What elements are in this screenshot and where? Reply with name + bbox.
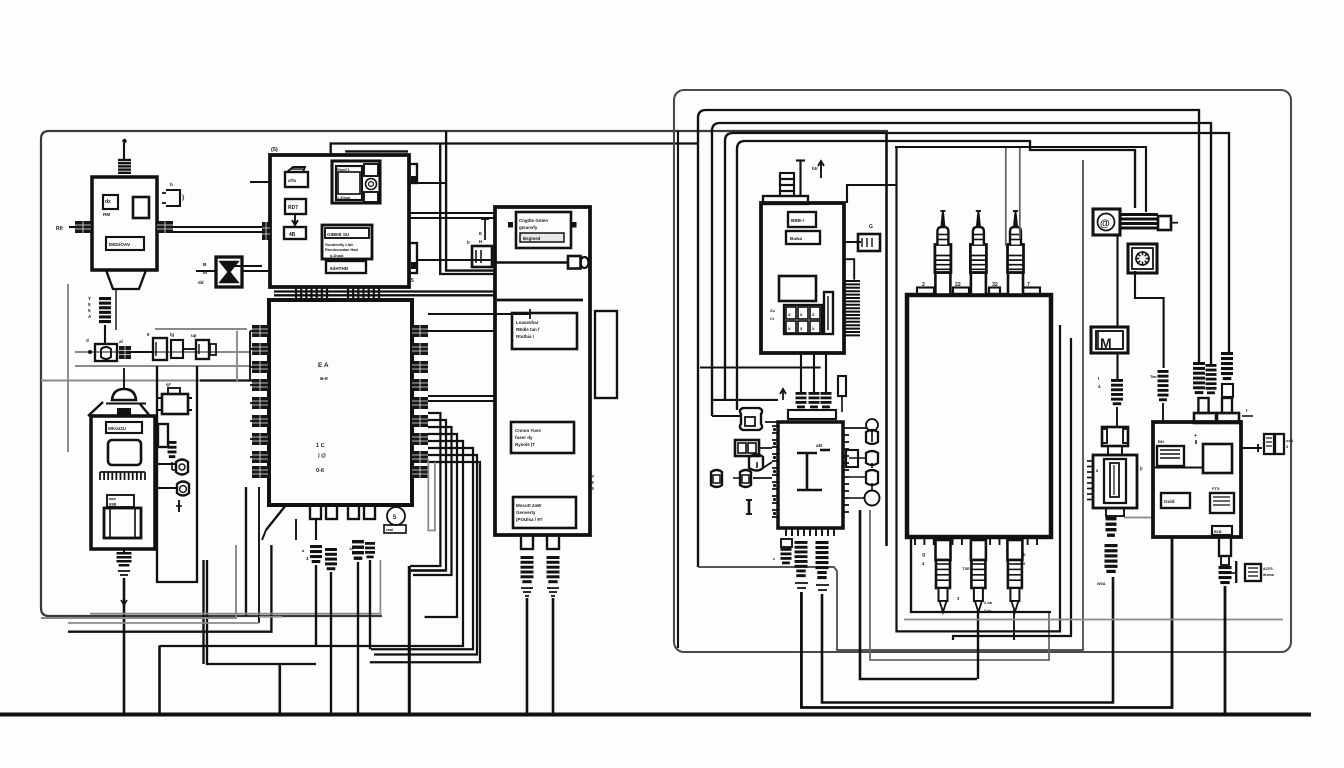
- svg-text:4B: 4B: [289, 232, 296, 238]
- G1 separator: [1153, 466, 1204, 468]
- wire: [242, 270, 269, 272]
- small box K1: [153, 338, 167, 360]
- svg-text:Cr: Cr: [770, 316, 775, 321]
- svg-text:3: 3: [1286, 445, 1288, 449]
- wire gray: [236, 331, 238, 381]
- wire gray loop: [67, 284, 69, 452]
- engine bottom rail: [915, 536, 1037, 538]
- svg-text:2: 2: [922, 282, 925, 288]
- D1 label 3: [511, 422, 574, 453]
- B2 screen: [108, 440, 141, 465]
- F1 bottom comb: [786, 527, 834, 529]
- svg-text:q#: q#: [166, 382, 172, 387]
- svg-text:22: 22: [955, 282, 961, 288]
- svg-text:odd: odd: [1286, 439, 1294, 443]
- small box: [158, 424, 168, 447]
- svg-text:WKcUZU: WKcUZU: [108, 426, 126, 431]
- loop wire 4: [737, 141, 1135, 410]
- IC bottom pin a: [310, 505, 321, 519]
- wire: [870, 510, 1049, 660]
- svg-text:Nysole |T: Nysole |T: [515, 442, 535, 447]
- svg-text:Bawa: Bawa: [790, 236, 802, 241]
- gray U right of IC: [428, 459, 435, 531]
- svg-text:drama: drama: [1263, 573, 1275, 577]
- svg-text:ggg: ggg: [109, 501, 117, 506]
- plug: [1106, 517, 1117, 520]
- display module M2: [332, 161, 380, 203]
- G1 label 1: [1157, 446, 1184, 466]
- wire: [700, 366, 821, 368]
- label box 6dutRM: [326, 261, 366, 273]
- E1 top connector stack: [780, 173, 794, 179]
- plug: [1193, 362, 1205, 365]
- wire: [843, 259, 855, 279]
- wire: [68, 545, 271, 632]
- wire: [698, 160, 1083, 650]
- wire: [196, 270, 216, 272]
- wire: [428, 313, 530, 315]
- IC bottom pin b: [348, 505, 359, 519]
- small box K2: [171, 340, 183, 358]
- wire: [417, 259, 495, 261]
- injector IJ2: [971, 273, 986, 295]
- B2 bottom plug: [117, 552, 132, 555]
- D1 label ears: [508, 222, 513, 228]
- box RD7: [285, 199, 306, 214]
- svg-text:al: al: [119, 339, 123, 344]
- wire: [104, 325, 106, 344]
- wire: [1116, 235, 1118, 327]
- M1 right tab 1: [409, 164, 417, 183]
- E1 label: [788, 212, 816, 227]
- wire: [526, 598, 529, 714]
- gray wires at IJ3: [1005, 148, 1007, 246]
- bus gray: [904, 619, 1283, 621]
- left panel border: [41, 131, 888, 616]
- wire: [173, 231, 262, 233]
- svg-text:|r: |r: [1140, 466, 1143, 471]
- wire: [204, 560, 317, 664]
- TX1 right pin comb: [157, 221, 173, 233]
- wire: [130, 351, 153, 353]
- motor icon box A3: [1091, 327, 1128, 353]
- svg-text:gtsunvfy: gtsunvfy: [519, 225, 538, 230]
- label block inside M1: [322, 225, 372, 259]
- IC left pin blocks: [252, 325, 268, 337]
- svg-text:Gold: Gold: [1164, 499, 1175, 504]
- M1 bottom compin 1: [296, 286, 327, 288]
- svg-text:E: E: [479, 231, 482, 236]
- G1 bottom box: [1212, 526, 1232, 535]
- bracket component right of TX1: [166, 190, 180, 206]
- wire: [953, 338, 1071, 640]
- wire: [173, 226, 262, 228]
- wire: [115, 289, 117, 330]
- hourglass sensor X1: [216, 257, 242, 287]
- box 4B: [284, 227, 306, 239]
- coolant sensor: [1245, 564, 1261, 581]
- engine top pedestals: [917, 288, 934, 296]
- svg-text:1 C: 1 C: [316, 443, 325, 449]
- wire: [232, 265, 262, 267]
- sensor ear: [749, 455, 763, 471]
- svg-text:5: 5: [411, 278, 414, 284]
- wire: [274, 294, 495, 296]
- E1 ribbon: [843, 280, 860, 282]
- box dx inside TX1: [103, 195, 118, 209]
- loop wire 1: [698, 110, 1199, 567]
- wire: [552, 598, 555, 714]
- tiny stub: [178, 500, 180, 512]
- right panel border: [674, 90, 1291, 652]
- wire: [245, 487, 247, 616]
- plug P3: [310, 545, 322, 548]
- E1 inner rect: [779, 276, 816, 301]
- wire gray: [75, 365, 250, 367]
- F1 left pin ticks: [772, 425, 778, 427]
- svg-text:0-6: 0-6: [316, 468, 324, 474]
- plug: [795, 541, 808, 544]
- plug: [816, 541, 829, 544]
- svg-text:7: 7: [1027, 282, 1030, 288]
- svg-text:akt: akt: [816, 443, 823, 448]
- distribution box D1: [495, 207, 590, 535]
- D1 separator 2: [497, 299, 583, 302]
- antenna coil: [118, 159, 131, 161]
- wire: [1116, 353, 1118, 379]
- wire: [712, 415, 740, 417]
- svg-text:) @: ) @: [318, 453, 326, 459]
- B2 transformer: [104, 508, 141, 538]
- down injector DJ3: [1007, 540, 1022, 560]
- control unit box M1: [270, 155, 409, 287]
- injector IJ1: [935, 273, 950, 295]
- label EEDIOAV: [106, 237, 144, 250]
- small box left of D1: [472, 246, 492, 267]
- M1 right tab 2: [409, 243, 417, 273]
- svg-text:up: up: [191, 333, 197, 338]
- svg-text:Geoverty: Geoverty: [516, 510, 536, 515]
- wire gray: [41, 380, 200, 382]
- svg-text:BBB-!: BBB-!: [791, 218, 804, 223]
- round sensor S2: [177, 482, 189, 496]
- svg-text:(0a: (0a: [233, 259, 240, 264]
- I mark: [748, 500, 751, 514]
- svg-text:B1B: B1B: [1214, 530, 1222, 534]
- svg-text:REdle tan f: REdle tan f: [516, 327, 540, 332]
- plug P4: [325, 548, 337, 551]
- wire: [897, 147, 1061, 631]
- svg-text:32: 32: [992, 282, 998, 288]
- wire: [250, 181, 270, 183]
- G1 top pedestals: [1194, 413, 1216, 423]
- D1 pin stub 2: [547, 535, 559, 549]
- plug P2: [547, 556, 560, 559]
- svg-text:3 la: 3 la: [984, 608, 991, 613]
- engine skirt rect: [911, 537, 1051, 612]
- svg-text:btr: btr: [812, 166, 818, 171]
- fuse box FB: [1264, 434, 1274, 454]
- relay K5: [858, 234, 880, 251]
- sensor G1: [740, 408, 762, 430]
- plug: [781, 539, 792, 547]
- round sensor S1: [176, 460, 188, 475]
- svg-text:Twr: Twr: [1150, 374, 1157, 379]
- G1 square: [1203, 444, 1232, 473]
- E1 inner strip: [824, 292, 833, 334]
- circle 5 marker: [387, 507, 405, 525]
- wire: [800, 353, 802, 392]
- plug: [1111, 379, 1123, 382]
- svg-text:b: b: [170, 182, 173, 187]
- trapezoid under TX1: [106, 270, 146, 289]
- svg-text:5: 5: [88, 308, 91, 313]
- vertical bus: [249, 331, 251, 380]
- svg-text:Loasevhar: Loasevhar: [516, 320, 539, 325]
- small box K3: [196, 340, 209, 359]
- nested wires right of IC: [410, 413, 440, 566]
- svg-text:a-e: a-e: [320, 376, 328, 382]
- wire: [200, 379, 252, 381]
- svg-text:aTa: aTa: [288, 178, 296, 184]
- right ECU box G1: [1153, 422, 1241, 537]
- svg-text:BH: BH: [1158, 439, 1164, 444]
- G1 right wire: [1241, 447, 1262, 449]
- sensor EB: [735, 440, 759, 456]
- G1 bottom plug: [1219, 537, 1231, 556]
- D1 label 1: [516, 212, 571, 248]
- svg-text:E A: E A: [318, 362, 329, 369]
- main ECU IC U1: [269, 300, 412, 505]
- wire bus left of IC: [250, 330, 252, 332]
- svg-text:1-3Guat: 1-3Guat: [337, 196, 351, 200]
- F1 I-beam: [797, 450, 830, 490]
- wire: [183, 348, 196, 350]
- svg-text:dd: dd: [198, 280, 204, 285]
- D1 label 4: [513, 497, 576, 528]
- connector J3: [119, 346, 131, 359]
- svg-text:Y: Y: [592, 474, 595, 479]
- wire: [428, 395, 495, 397]
- svg-text:Bsgteed: Bsgteed: [523, 236, 541, 241]
- IC right pin blocks: [412, 325, 428, 337]
- svg-text:(POUlsa / 9T: (POUlsa / 9T: [516, 517, 543, 522]
- wire: [278, 664, 281, 714]
- svg-text:G: G: [869, 224, 873, 230]
- plug P6: [365, 542, 375, 545]
- wire: [801, 537, 1172, 708]
- M1 bottom compin 2: [348, 286, 379, 288]
- svg-text:6dHTHN: 6dHTHN: [330, 266, 349, 271]
- svg-text:Zu: Zu: [770, 308, 775, 313]
- wire: [408, 566, 411, 714]
- injector IJ3: [1008, 273, 1023, 295]
- wire gray: [155, 328, 247, 330]
- svg-text:Rfl: Rfl: [56, 226, 63, 232]
- plug: [796, 392, 807, 395]
- svg-text:EEDiOAV: EEDiOAV: [109, 242, 131, 248]
- down injector DJ2: [971, 540, 986, 560]
- ignition module box E1: [761, 203, 844, 353]
- wire: [1224, 586, 1227, 714]
- G1 label 2: [1161, 493, 1190, 508]
- wire: [428, 400, 495, 402]
- wire: [331, 144, 698, 156]
- wire: [417, 182, 447, 184]
- wire: [1013, 610, 1015, 640]
- svg-text:@: @: [1100, 219, 1110, 230]
- wire: [409, 212, 495, 214]
- wire: [295, 519, 297, 540]
- wire: [158, 646, 161, 715]
- lower left box B2: [91, 416, 155, 549]
- wire: [440, 144, 495, 275]
- wire: [871, 431, 873, 442]
- wire: [860, 510, 977, 679]
- wire: [155, 463, 176, 465]
- svg-text:M: M: [1100, 335, 1112, 351]
- D1 plug right: [568, 256, 581, 269]
- F1 right pin ticks: [843, 427, 849, 429]
- svg-text:FTS: FTS: [1212, 486, 1220, 491]
- svg-text:lg: lg: [170, 332, 174, 337]
- arrow down: [292, 214, 298, 225]
- plug: [1105, 544, 1118, 547]
- svg-text:+: +: [1194, 433, 1197, 439]
- wire: [822, 577, 1113, 703]
- wire: [942, 610, 944, 612]
- svg-text:Y: Y: [88, 296, 91, 301]
- box ata with flag: [285, 172, 308, 187]
- svg-text:5: 5: [88, 302, 91, 307]
- plug P1: [521, 556, 534, 559]
- engine block ENG: [907, 295, 1051, 537]
- wire gray: [68, 617, 282, 623]
- wire: [1116, 407, 1118, 427]
- wire: [446, 131, 495, 271]
- loop wire 5: [895, 147, 1146, 212]
- wire: [844, 241, 861, 243]
- wire: [977, 610, 979, 679]
- connector J2: [95, 344, 117, 361]
- wire: [1135, 271, 1164, 368]
- channel duct: [157, 366, 197, 582]
- svg-text:Cnnon Yuse: Cnnon Yuse: [515, 428, 541, 433]
- B2 label: [106, 422, 142, 433]
- wire gray: [75, 351, 250, 353]
- plug: [1219, 566, 1232, 569]
- diagonal lead: [266, 505, 286, 530]
- wire gray: [90, 560, 380, 614]
- svg-text:Mocutt 2aW: Mocutt 2aW: [516, 503, 542, 508]
- svg-text:RM: RM: [103, 212, 110, 217]
- wire: [123, 549, 125, 552]
- pedestal: [1102, 427, 1128, 446]
- plug P5: [352, 540, 364, 543]
- wire: [409, 217, 495, 219]
- wire: [428, 330, 495, 332]
- TX1 left pin comb: [75, 221, 91, 233]
- G1 label 3: [1210, 493, 1234, 513]
- svg-text:Rtutbia !: Rtutbia !: [516, 334, 535, 339]
- wire: [409, 569, 446, 572]
- seg cylinder: [168, 441, 177, 444]
- box inside TX1 right: [133, 197, 149, 218]
- B2 comb: [100, 471, 145, 473]
- small component: [838, 376, 846, 396]
- svg-text:2 ba: 2 ba: [984, 600, 993, 605]
- svg-text:fuser dy: fuser dy: [515, 435, 533, 440]
- svg-text:GIBEB SU: GIBEB SU: [327, 232, 350, 237]
- motor box M3: [162, 394, 188, 414]
- wire: [712, 399, 778, 401]
- svg-text:Roodnowdae Had: Roodnowdae Had: [325, 247, 358, 252]
- svg-text:RawC1: RawC1: [337, 168, 350, 172]
- svg-text:d: d: [86, 338, 89, 343]
- svg-text:B: B: [203, 262, 207, 268]
- svg-text:W0A: W0A: [1097, 582, 1106, 586]
- wire: [345, 150, 408, 152]
- svg-text:ACFS: ACFS: [1263, 567, 1273, 571]
- D1 pin stub 1: [521, 535, 533, 549]
- connector pair: [711, 470, 722, 487]
- E1 fuse grid: [784, 305, 822, 334]
- svg-text:b: b: [1023, 552, 1026, 557]
- loop wire 2: [712, 123, 1211, 416]
- fan icon box A2: [1128, 244, 1157, 273]
- svg-text:H: H: [479, 239, 482, 244]
- roof lines: [88, 402, 103, 416]
- wire: [847, 185, 897, 203]
- D1 label 2: [512, 313, 577, 349]
- wire: [274, 290, 495, 292]
- wire: [780, 389, 786, 400]
- M1 left pins: [262, 222, 270, 240]
- D1 separator: [495, 261, 568, 264]
- wire: [885, 133, 888, 546]
- resistor coil R1: [99, 297, 111, 300]
- cam sensor stack: [1093, 455, 1137, 508]
- plug: [1221, 352, 1233, 355]
- svg-text:p-Duad: p-Duad: [330, 253, 344, 258]
- transmitter box TX1: [92, 177, 157, 270]
- cable right of A1: [1119, 213, 1158, 216]
- B2 small label: [107, 495, 134, 507]
- black plug on top: [117, 408, 131, 416]
- svg-text:1c: 1c: [349, 546, 354, 551]
- svg-text:dx: dx: [105, 199, 111, 205]
- ground rail: [0, 712, 1311, 716]
- plug: [1206, 364, 1217, 367]
- svg-text:RD7: RD7: [288, 205, 298, 211]
- wire: [677, 131, 679, 648]
- svg-text:TSE: TSE: [962, 566, 970, 571]
- D1 left tick: [481, 218, 489, 220]
- wire gray: [41, 545, 236, 618]
- pump control box F1: [778, 422, 843, 528]
- plug: [1158, 370, 1169, 373]
- wire gray: [1124, 517, 1153, 519]
- sensor caps: [866, 430, 878, 444]
- svg-text:Cngdte Gnten: Cngdte Gnten: [519, 218, 548, 223]
- loop wire 3: [725, 133, 1229, 400]
- sensor dome: [112, 389, 136, 400]
- F1 top plates: [788, 410, 836, 419]
- sensor circle: [866, 419, 878, 431]
- down injector DJ1: [936, 540, 951, 560]
- svg-text:(5): (5): [271, 147, 278, 153]
- svg-text:raal: raal: [386, 527, 393, 532]
